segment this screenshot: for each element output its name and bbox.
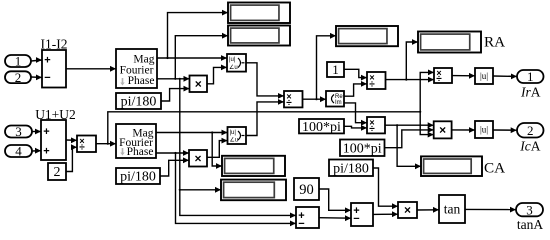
sum S3 (phase difference) xyxy=(296,207,319,230)
wire: Fourier F1 Phase output to product P1 input xyxy=(157,78,190,80)
wire: Abs A1 to outport 1 xyxy=(493,75,517,77)
Fourier block F1 xyxy=(116,49,157,88)
wire: 100*pi K3 to divide DV2 bottom input xyxy=(344,126,367,128)
svg-text:|u|: |u| xyxy=(480,71,488,81)
wire: sum S2 output to divide DH input xyxy=(66,139,77,141)
wire: Fourier F2 Mag output to X2 |u| input xyxy=(156,132,228,134)
product P4 (IcA) xyxy=(434,121,452,138)
constant pi/180 K1 xyxy=(116,93,161,110)
constant 90 xyxy=(294,178,319,200)
wire: U branch down to product P4 third input xyxy=(420,112,434,135)
svg-text:÷: ÷ xyxy=(79,143,85,154)
display D5 xyxy=(221,180,286,201)
svg-text:I1-I2: I1-I2 xyxy=(41,36,68,51)
svg-text:CA: CA xyxy=(484,159,505,176)
svg-text:÷: ÷ xyxy=(436,74,442,85)
wire: X2 output up to divide DV0 bottom input xyxy=(246,102,284,136)
constant pi/180 K2 xyxy=(116,168,160,185)
inport 3 xyxy=(5,124,32,139)
wire: divide DV2 output (CA) to product P4 first input xyxy=(385,124,434,126)
svg-text:pi/180: pi/180 xyxy=(121,95,157,110)
inport 2 xyxy=(5,70,31,85)
outport 1 (IrA) xyxy=(517,69,544,84)
svg-text:×: × xyxy=(404,203,411,217)
wire: constant 2 to divide DH bottom input xyxy=(66,147,77,171)
wire: RA branch up to display RA xyxy=(406,42,418,80)
wire: Mag branch up to display D1 xyxy=(168,13,229,58)
svg-text:+: + xyxy=(43,145,49,157)
product P3 xyxy=(398,202,417,218)
wire: tan output to outport 3 xyxy=(465,208,516,210)
svg-text:Im: Im xyxy=(335,100,342,106)
tan block xyxy=(439,195,465,223)
wire: Abs A2 to outport 2 xyxy=(493,129,517,131)
Fourier block F2 xyxy=(116,124,156,158)
svg-text:3: 3 xyxy=(15,124,22,139)
divide DV3 (U/RA) xyxy=(434,68,452,85)
svg-text:2: 2 xyxy=(54,165,61,180)
svg-text:|u|: |u| xyxy=(230,130,237,136)
wire: pi/180 K5 to product P3 top input xyxy=(373,168,398,206)
Abs A1 xyxy=(475,68,493,84)
svg-text:tan: tan xyxy=(444,201,461,216)
wire: Fourier F1 Mag output to Mag-Angle-to-Complex X1 |u| input xyxy=(157,57,227,59)
product P2 xyxy=(189,150,207,167)
display RA xyxy=(418,32,481,53)
svg-text:−: − xyxy=(353,213,359,225)
display D2 xyxy=(228,26,290,46)
wire: product P4 output to Abs A2 xyxy=(452,129,475,131)
svg-text:Phase: Phase xyxy=(127,146,154,158)
svg-text:−: − xyxy=(44,72,50,84)
wire: Phase2 branch down to sum S3 - input xyxy=(176,153,297,223)
inport 4 xyxy=(5,144,32,159)
svg-text:×: × xyxy=(194,151,201,165)
wire: inport 4 to sum S2 xyxy=(32,150,41,152)
wire: divide DV0 output to Complex-to-Real-Imag input xyxy=(303,98,327,100)
display D1 xyxy=(228,3,290,24)
svg-text:90: 90 xyxy=(299,182,314,198)
svg-text:÷: ÷ xyxy=(369,79,375,90)
svg-text:3: 3 xyxy=(526,202,533,217)
wire: Mag2 branch down to display D4 xyxy=(212,133,222,167)
Magnitude-Angle to Complex X2 xyxy=(228,127,247,144)
svg-text:Phase: Phase xyxy=(128,75,155,87)
wire: 100*pi K4 to product P4 second input xyxy=(385,130,434,148)
display CA xyxy=(421,156,482,176)
outport 3 (tanA) xyxy=(516,202,543,217)
svg-text:−: − xyxy=(298,218,304,230)
svg-text:IrA: IrA xyxy=(520,85,541,100)
svg-text:100*pi: 100*pi xyxy=(302,120,341,135)
wire: product P2 output to X2 angle input xyxy=(207,141,228,158)
product P1 xyxy=(190,76,208,93)
divide DH ((U1+U2)/2) xyxy=(77,136,96,154)
svg-text:÷: ÷ xyxy=(369,124,375,135)
wire: inport 2 to sum S1 - input xyxy=(31,76,42,78)
svg-text:4: 4 xyxy=(15,144,22,159)
svg-text:pi/180: pi/180 xyxy=(333,161,369,176)
divide DV2 (Im/100pi) xyxy=(367,117,385,135)
svg-text:|u|: |u| xyxy=(480,125,488,135)
wire: sum S3 output to sum S4 - input xyxy=(319,217,351,220)
wire: sum S4 output to product P3 bottom input xyxy=(373,213,398,215)
wire: inport 3 to sum S2 xyxy=(32,131,41,133)
wire: Re output to divide DV1 bottom input xyxy=(344,84,367,96)
junction on Mag wire xyxy=(166,57,168,59)
wire: CA branch down to display CA xyxy=(397,125,421,166)
wire: divide DV1 output (RA) to divide DV3 bottom input xyxy=(386,79,435,81)
constant 100*pi K3 xyxy=(299,119,344,135)
wire: constant 1 to divide DV1 top input xyxy=(344,69,367,77)
constant 2 xyxy=(48,163,66,180)
svg-text:+: + xyxy=(44,55,50,67)
svg-text:÷: ÷ xyxy=(286,98,292,109)
wire: divide DH output to Fourier F2 input xyxy=(96,143,116,145)
svg-text:RA: RA xyxy=(484,33,505,50)
constant pi/180 K5 xyxy=(329,160,373,177)
svg-text:tanA: tanA xyxy=(517,217,543,232)
svg-text:100*pi: 100*pi xyxy=(343,141,382,156)
wire: Phase1 branch down to sum S3 + input xyxy=(180,79,296,216)
svg-text:pi/180: pi/180 xyxy=(120,170,156,185)
svg-text:1: 1 xyxy=(527,69,534,84)
constant 100*pi K4 xyxy=(340,140,385,157)
wire: branch to display D5 xyxy=(180,189,221,191)
sum S4 (90 - diff) xyxy=(351,203,373,226)
display D3 xyxy=(336,26,398,46)
divide DV0 (I/U) xyxy=(284,91,303,109)
svg-text:∠u: ∠u xyxy=(230,136,239,143)
wire: constant 90 to sum S4 + input xyxy=(319,189,351,210)
sum S2 (U1+U2) xyxy=(41,120,66,160)
display D4 xyxy=(222,156,285,176)
sum S1 (I1-I2) xyxy=(42,50,66,88)
wire: pi/180 K2 to product P2 lower input xyxy=(160,160,189,176)
Abs A2 xyxy=(475,121,493,138)
Complex to Real-Imag xyxy=(326,91,344,107)
wire: inport 1 to sum S1 + input xyxy=(31,60,42,61)
svg-text:|u|: |u| xyxy=(229,57,236,63)
wire: product P3 output to tan block xyxy=(417,209,439,211)
Magnitude-Angle to Complex X1 xyxy=(227,54,246,72)
svg-text:×: × xyxy=(195,77,202,91)
wire: sum S1 output to Fourier F1 input xyxy=(66,68,116,70)
svg-text:+: + xyxy=(43,126,49,138)
outport 2 (IcA) xyxy=(517,123,544,138)
wire: U signal branch up and across to right side xyxy=(108,112,420,144)
svg-text:1: 1 xyxy=(15,54,22,69)
wire: pi/180 K1 to product P1 lower input xyxy=(161,89,190,101)
wire: branch up to display D3 xyxy=(317,36,337,99)
wire: Fourier F2 Phase output to product P2 input xyxy=(156,152,189,154)
wire: product P1 output to X1 angle input xyxy=(207,67,227,83)
wire: divide DV3 output to Abs A1 xyxy=(452,75,475,77)
svg-text:2: 2 xyxy=(15,70,22,85)
wire: X1 output down to divide DV0 top input xyxy=(246,63,284,96)
svg-text:IcA: IcA xyxy=(519,139,541,154)
svg-text:U1+U2: U1+U2 xyxy=(35,107,76,122)
svg-text:2: 2 xyxy=(527,123,534,138)
svg-text:×: × xyxy=(439,123,446,137)
svg-text:∠u: ∠u xyxy=(229,64,238,71)
inport 1 xyxy=(5,54,31,69)
wire: Im output to divide DV2 top input xyxy=(344,103,367,123)
wire: U branch up to divide DV3 top input xyxy=(420,72,434,111)
svg-text:1: 1 xyxy=(332,62,339,77)
divide DV1 (1/Re) xyxy=(367,72,386,90)
constant 1 xyxy=(327,62,344,77)
wire: Phase branch up to display D2 xyxy=(175,36,228,79)
